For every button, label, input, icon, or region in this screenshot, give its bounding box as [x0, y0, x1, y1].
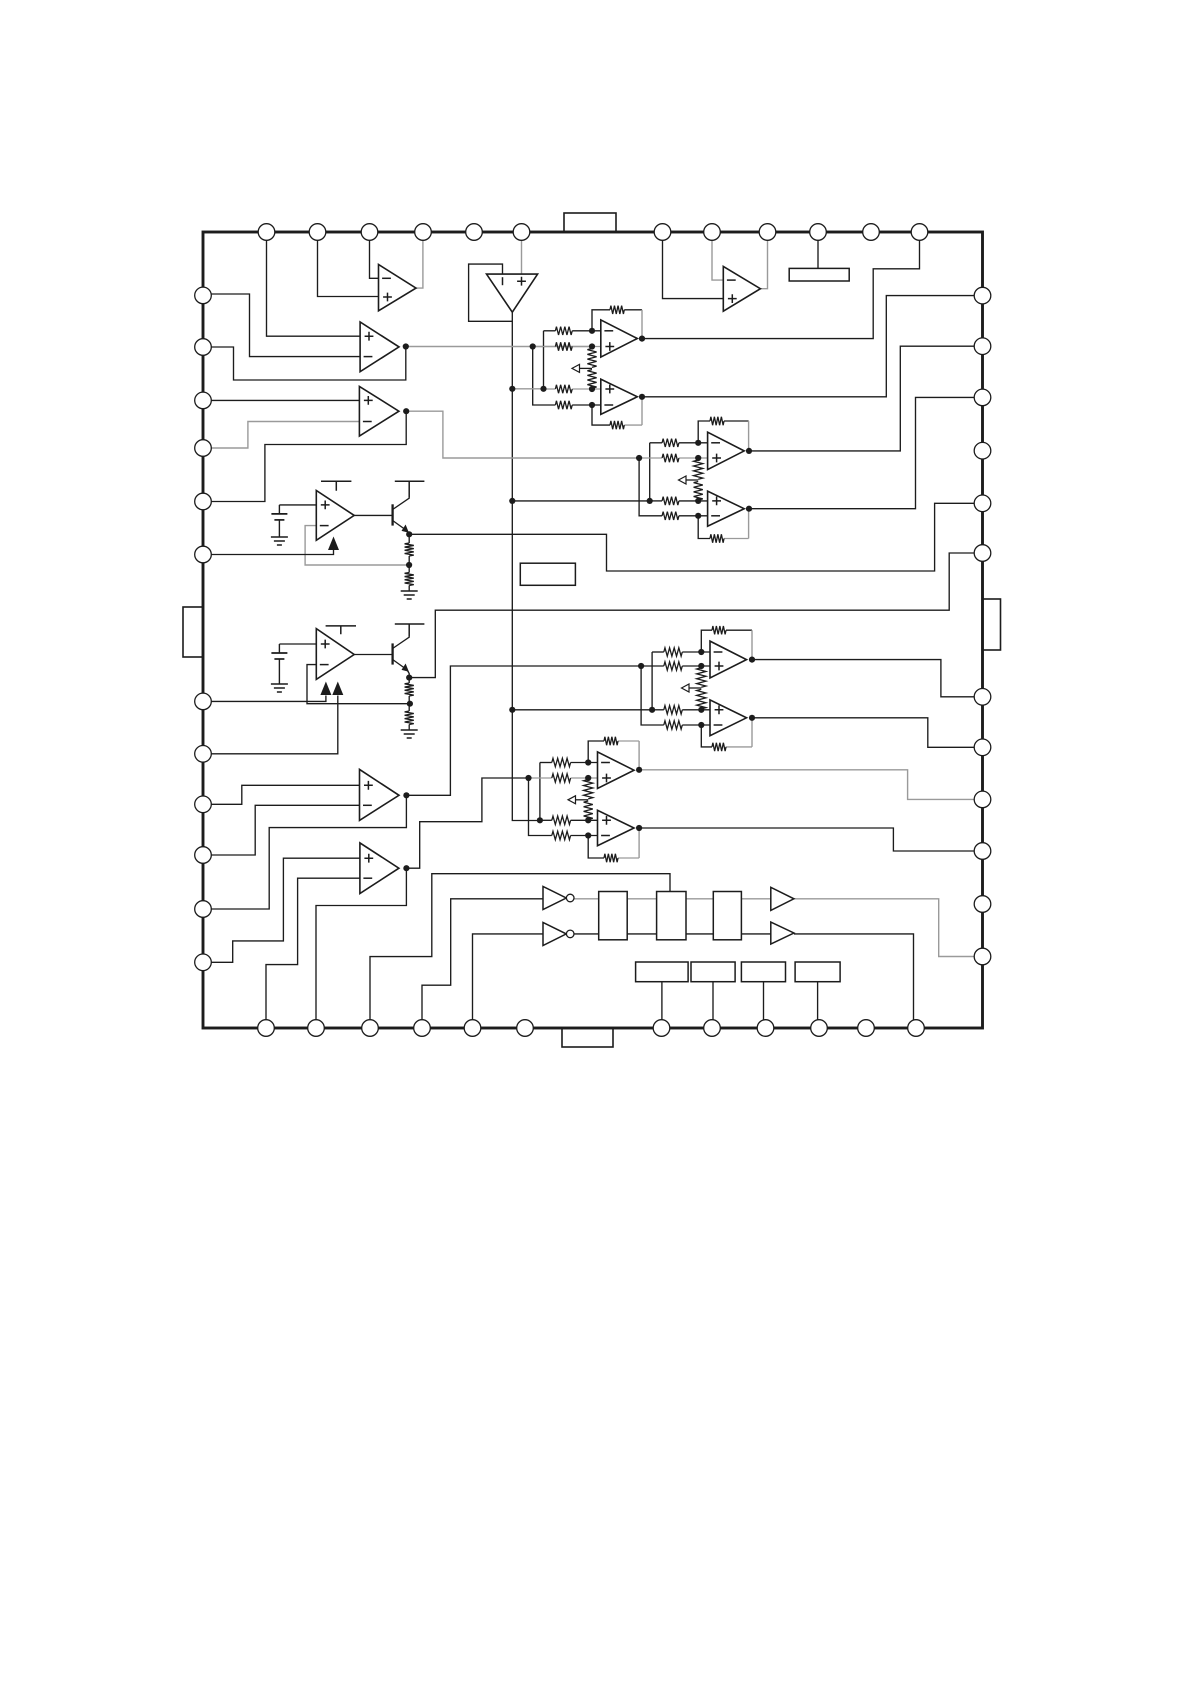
wire block4 R19 leads	[540, 819, 552, 821]
wire U4 output to block2 input	[406, 411, 639, 458]
wire block2 R8 lead	[679, 515, 708, 517]
wire block4 input bus B	[539, 763, 541, 821]
resistor R17	[552, 758, 571, 766]
wire block4 U16 feedback	[588, 741, 604, 763]
supply rail bar over Q1	[395, 481, 425, 498]
pot resistor R32b	[584, 801, 593, 819]
wire pin L7 to gain arrow 1	[203, 696, 326, 702]
wire pin T7 to U7 non-inverting input	[663, 232, 724, 299]
ground below R10	[401, 591, 418, 599]
op-amp U17	[598, 810, 635, 845]
wire U12 output to pin L11	[203, 795, 406, 909]
gain control arrow 2 into U6	[332, 682, 343, 696]
pin T1	[258, 224, 275, 241]
wire block2 U11 output to pin R3	[749, 397, 983, 508]
pin R4	[974, 442, 991, 459]
wire pin T2 to U1 non-inverting input	[318, 232, 379, 297]
pin L10	[195, 847, 212, 864]
wire pin B1 to U13 inverting input	[266, 878, 360, 1028]
feedback resistor R30	[604, 737, 618, 745]
op-amp U4	[359, 386, 399, 436]
inverter B	[543, 922, 566, 945]
pot wiper arrow block3	[689, 687, 702, 689]
wire block2 U10 output to pin R2	[749, 346, 983, 451]
wire pin L1 to U3 inverting input	[203, 294, 360, 357]
wire to ground 2	[408, 725, 410, 731]
wire block2 input bus A	[639, 458, 662, 516]
resistor R2	[555, 342, 572, 350]
pin T7	[654, 224, 671, 241]
pot resistor R23b	[587, 370, 596, 389]
op-amp U16	[598, 752, 635, 789]
pin L3	[195, 392, 212, 409]
resistor R5	[662, 439, 679, 447]
feedback resistor R21	[610, 306, 624, 314]
wire to ground	[408, 586, 410, 592]
bottom box 3	[741, 962, 785, 982]
wire block3 R14 leads	[641, 665, 664, 667]
pin T3	[361, 224, 378, 241]
delay box 3	[713, 892, 741, 940]
pin T11	[863, 224, 880, 241]
feedback resistor R27	[712, 626, 726, 634]
pin T6	[513, 224, 530, 241]
wire U2 feedback loop	[469, 264, 513, 321]
wire buffer A output to pin R12	[794, 899, 983, 957]
wire U13 output to block4 input	[406, 778, 528, 868]
pin B1	[258, 1020, 275, 1037]
wire inverter B to delay chain	[574, 933, 599, 935]
capacitor C1	[278, 505, 280, 514]
wire box1 to pin B7	[661, 982, 663, 1028]
feedback resistor R24	[710, 417, 724, 425]
op-amp U5	[316, 491, 354, 541]
delay box 2	[657, 892, 686, 940]
pin B12	[908, 1020, 925, 1037]
wire box4 to pin B10	[817, 982, 819, 1028]
supply rail bar over U5	[321, 481, 351, 491]
wire U13 output to pin B2	[316, 868, 406, 1028]
resistor R14	[664, 662, 682, 670]
floating block box	[520, 563, 575, 585]
wire U3 output feedback to pin L2	[203, 347, 406, 381]
wire pin B4 to inverter A	[422, 899, 543, 1028]
resistor R18	[552, 774, 571, 782]
wire block2 input bus B	[649, 443, 651, 501]
pin B3	[362, 1020, 379, 1037]
pin R10	[974, 843, 991, 860]
wire block4 R20 lead	[571, 835, 598, 837]
transistor Q1	[391, 504, 393, 525]
wire main bus to block3 node	[512, 709, 652, 711]
pin T4	[415, 224, 432, 241]
op-amp U1	[379, 265, 417, 311]
left tab	[183, 607, 203, 657]
resistor R19	[552, 816, 571, 824]
junction dots	[403, 343, 409, 349]
wire block1 R3 leads	[544, 388, 556, 390]
wire block3 R13 leads	[652, 651, 664, 653]
pin L8	[195, 746, 212, 763]
wire block4 U17 feedback	[588, 836, 604, 859]
right tab	[983, 599, 1001, 650]
pin T9	[759, 224, 776, 241]
resistor R7	[662, 497, 679, 505]
wire pin T1 to U3 non-inverting input	[267, 232, 361, 336]
wire U6 inverting feedback	[307, 665, 410, 704]
pin L7	[195, 693, 212, 710]
feedback resistor R25	[710, 534, 724, 542]
gain control arrow 1 into U6	[320, 682, 331, 696]
wire block4 R17 leads	[540, 762, 552, 764]
wire pin L6 to gain arrow	[203, 550, 334, 555]
wire block1 R1 leads	[544, 330, 556, 332]
pin B8	[704, 1020, 721, 1037]
bottom box 4	[795, 962, 840, 982]
pin R11	[974, 896, 991, 913]
pot resistor R26a	[694, 460, 703, 479]
delay box 1	[599, 892, 628, 940]
wire block1 U9 output to pin R1	[642, 296, 983, 397]
pin B5	[464, 1020, 481, 1037]
pin L12	[195, 954, 212, 971]
wire Q2 emitter to pin R6	[409, 553, 982, 678]
resistor R15	[664, 706, 682, 714]
wire block2 R5 leads	[650, 442, 662, 444]
buffer A	[771, 887, 794, 910]
wire pin T6 to U2 non-inverting input	[521, 232, 523, 274]
pot resistor R26b	[694, 482, 703, 500]
IC package outline	[203, 232, 983, 1028]
wire pin L9 to U12 non-inverting input	[203, 785, 360, 804]
wire block3 R15 leads	[652, 709, 664, 711]
resistor R11	[405, 683, 414, 696]
wire block3 input bus A	[641, 666, 664, 725]
bottom box 1	[636, 962, 689, 982]
wire pin L4 to U4 inverting input	[203, 422, 359, 449]
wire pin T8 to U7 inverting input	[712, 232, 723, 280]
pot resistor R32a	[584, 780, 593, 799]
pin L6	[195, 546, 212, 563]
wire block4 R18 leads	[529, 777, 552, 779]
wire block3 U14 output to pin R7	[752, 660, 983, 697]
op-amp U13	[360, 843, 399, 894]
pin L9	[195, 796, 212, 813]
wire block3 U15 output to pin R8	[752, 718, 983, 748]
pin R8	[974, 739, 991, 756]
wire pin L10 to U12 inverting input	[203, 805, 360, 855]
ground below C2	[271, 684, 288, 692]
resistor R3	[555, 385, 572, 393]
wire block1 input bus B	[543, 331, 545, 389]
wire block1 R2 leads	[533, 346, 556, 348]
resistor R4	[555, 401, 572, 409]
buffer B	[771, 922, 794, 944]
pin R3	[974, 389, 991, 406]
pin R7	[974, 689, 991, 706]
gain control arrow into U5	[328, 537, 339, 551]
wire main vertical bus from U2 output	[512, 312, 540, 820]
wire U12 output to block3 input	[406, 666, 641, 795]
pin L4	[195, 440, 212, 457]
pin T5	[466, 224, 483, 241]
wire block4 U17 output to pin R10	[639, 828, 982, 851]
wire block4 U16 output to pin R9	[639, 770, 982, 800]
wire block2 U10 feedback	[698, 421, 710, 443]
resistor R13	[664, 648, 682, 656]
wire U1 output to pin T4	[416, 232, 423, 288]
wire block2 U11 feedback	[698, 516, 710, 539]
wire U6 output to Q2 base	[354, 654, 392, 656]
op-amp U3	[360, 322, 399, 372]
wire block2 R7 leads	[650, 500, 662, 502]
resistor R20	[552, 831, 571, 839]
wire block3 R16 lead	[682, 724, 710, 726]
wire block1 U9 feedback	[592, 405, 610, 425]
wire pin T3 to U1 inverting input	[370, 232, 379, 278]
feedback resistor R31	[604, 854, 618, 862]
pin B4	[414, 1020, 431, 1037]
wire U4 output to pin L5	[203, 411, 406, 501]
wire Q2 emitter node	[408, 671, 410, 684]
wire block3 input bus B	[651, 652, 653, 710]
wire block1 R4 lead	[572, 404, 601, 406]
pin B7	[653, 1020, 670, 1037]
wire pin L12 to U13 non-inverting input	[203, 858, 360, 962]
wire pin L3 to U4 non-inverting input	[203, 399, 359, 401]
pin R6	[974, 545, 991, 562]
top tab	[564, 213, 616, 232]
pin B6	[517, 1020, 534, 1037]
wire box3 to pin B9	[763, 982, 765, 1028]
wire U5 output to Q1 base	[354, 514, 392, 516]
pin T10	[810, 224, 827, 241]
wire buffer B output to pin B12	[794, 934, 914, 1028]
pin L11	[195, 901, 212, 918]
wire block4 input bus A	[529, 778, 552, 836]
wire pin B5 to inverter B	[473, 934, 544, 1028]
op-amp U12	[360, 769, 400, 820]
op-amp U10	[708, 432, 745, 469]
pin L1	[195, 287, 212, 304]
resistor R10	[405, 573, 414, 586]
wire U7 output to pin T9	[760, 232, 767, 289]
wire main bus to block2 node	[512, 500, 649, 502]
op-amp U11	[708, 491, 745, 526]
wire U6 non-inverting input	[279, 643, 316, 645]
block box at pin T10	[789, 268, 849, 281]
pot wiper arrow block4	[575, 799, 588, 801]
wire delay chain segments row B	[627, 933, 656, 935]
pin B11	[858, 1020, 875, 1037]
feedback resistor R28	[712, 743, 726, 751]
pot wiper arrow block2	[686, 479, 699, 481]
op-amp U8	[601, 320, 638, 357]
wire pin T10 to block box	[817, 232, 819, 268]
wire Q1 emitter to pin R5	[409, 503, 982, 571]
pin R12	[974, 948, 991, 965]
op-amp U14	[710, 641, 747, 678]
pot wiper arrow block1	[579, 367, 592, 369]
capacitor C2	[278, 644, 280, 653]
pin T2	[309, 224, 326, 241]
pin R2	[974, 338, 991, 355]
pin L5	[195, 493, 212, 510]
wire block2 R6 leads	[639, 457, 662, 459]
pin R9	[974, 791, 991, 808]
pin R1	[974, 287, 991, 304]
wire inverter A to delay chain	[574, 898, 599, 900]
wire U5 non-inverting input	[279, 504, 316, 506]
pin B9	[757, 1020, 774, 1037]
pot resistor R23a	[587, 349, 596, 368]
wire main bus to block1 node	[512, 388, 543, 390]
pin L2	[195, 339, 212, 356]
wire divider mid	[408, 556, 410, 573]
resistor R16	[664, 721, 682, 729]
pin B2	[308, 1020, 325, 1037]
pin B10	[811, 1020, 828, 1037]
wire block3 U15 feedback	[701, 725, 712, 747]
pot resistor R29b	[697, 689, 706, 709]
wire pin B3 to delay box 2	[370, 874, 670, 1028]
wire block1 U8 output to pin T12	[642, 232, 920, 339]
resistor R12	[405, 711, 414, 725]
wire block1 input bus A	[533, 347, 556, 406]
inverter A	[543, 886, 566, 909]
wire Q1 emitter node	[408, 532, 410, 544]
op-amp U2 (points down)	[487, 274, 538, 312]
op-amp U9	[601, 379, 638, 414]
feedback resistor R22	[610, 421, 624, 429]
bottom box 2	[691, 962, 735, 982]
pin T12	[911, 224, 928, 241]
ground below R12	[401, 730, 418, 738]
op-amp U15	[710, 700, 747, 736]
pot resistor R29a	[697, 668, 706, 687]
wire U5 inverting feedback	[305, 526, 409, 565]
wire box2 to pin B8	[712, 982, 714, 1028]
bottom tab	[562, 1028, 613, 1047]
transistor Q2	[391, 643, 393, 664]
resistor R1	[555, 327, 572, 335]
ground below C1	[271, 537, 288, 545]
resistor R8	[662, 512, 679, 520]
wire U3 output to block1 input	[406, 346, 592, 348]
pin R5	[974, 495, 991, 512]
pin T8	[704, 224, 721, 241]
supply rail bar over U6	[326, 626, 356, 634]
resistor R6	[662, 454, 679, 462]
wire divider mid 2	[408, 696, 410, 711]
wire delay chain segments row A	[627, 898, 656, 900]
op-amp U7	[723, 266, 760, 311]
op-amp U6	[316, 629, 354, 680]
wire pin L8 to gain arrow 2	[203, 696, 338, 754]
wire block1 U8 feedback	[592, 310, 610, 331]
resistor R9	[405, 543, 414, 556]
supply rail bar over Q2	[395, 624, 425, 637]
wire block3 U14 feedback	[701, 630, 712, 652]
